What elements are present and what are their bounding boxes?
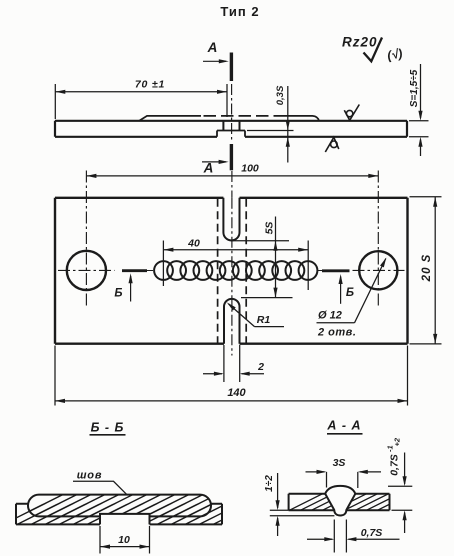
dimension 0,7S tolerance line — [404, 453, 406, 534]
svg-text:Б: Б — [346, 287, 354, 299]
right hole vertical centerline — [377, 171, 379, 308]
left hole vertical centerline — [85, 171, 87, 308]
hole callout shelf — [317, 322, 355, 324]
right hole — [359, 251, 397, 289]
dimension 1÷2 extension lines — [270, 510, 335, 516]
section mark A bottom: arrow — [202, 161, 226, 163]
svg-text:Rz20: Rz20 — [342, 35, 378, 50]
svg-text:Тип 2: Тип 2 — [220, 4, 259, 19]
svg-text:+2: +2 — [393, 437, 402, 446]
section mark A top: arrow — [203, 60, 226, 62]
side view weld bead top line dashed middle — [204, 115, 278, 117]
svg-text:-1: -1 — [386, 445, 395, 452]
left hole — [67, 251, 106, 290]
dimension 140 line — [55, 400, 408, 402]
svg-text:5S: 5S — [264, 222, 276, 235]
label шов leader — [73, 481, 127, 495]
centerline of section A between views — [231, 171, 233, 198]
dimension 70±1 line — [55, 91, 227, 93]
section mark Б left: arrow — [130, 276, 132, 302]
svg-text:20 S: 20 S — [421, 254, 433, 283]
plan view plate outline — [55, 198, 408, 344]
hole callout leader — [355, 259, 386, 323]
dimension 0,3S line — [287, 86, 289, 163]
dimension 20S line — [434, 197, 436, 344]
svg-text:140: 140 — [227, 387, 246, 399]
svg-text:2 отв.: 2 отв. — [317, 327, 356, 339]
centerline stub left of weld — [147, 270, 153, 272]
svg-text:Б: Б — [114, 288, 122, 300]
section mark A bottom: thick bar — [230, 144, 233, 170]
dimension 3S arrows — [306, 471, 382, 473]
dimension 1÷2 line — [277, 473, 279, 536]
svg-text:А: А — [203, 161, 214, 176]
А-А weld bead — [325, 486, 355, 516]
svg-text:А - А: А - А — [326, 419, 361, 433]
dimension 40 line — [163, 249, 308, 251]
notch cutout mask — [101, 514, 149, 524]
horizontal centerline right — [353, 269, 405, 271]
plan view centerline vertical — [231, 198, 233, 356]
svg-text:Ø 12: Ø 12 — [318, 310, 342, 322]
surface finish symbol top — [344, 105, 359, 121]
svg-text:шов: шов — [77, 470, 103, 482]
dimension 2 extension lines — [224, 345, 240, 382]
svg-text:(√): (√) — [386, 46, 403, 62]
svg-text:0,3S: 0,3S — [275, 85, 286, 105]
dimension 0,7S bottom extension lines — [334, 520, 346, 553]
radius R1 leader — [229, 304, 285, 327]
svg-text:0,7S: 0,7S — [389, 454, 401, 476]
centerline stub right of weld — [318, 270, 323, 272]
dimension 100 line — [86, 175, 378, 177]
svg-text:Б - Б: Б - Б — [91, 421, 125, 435]
dimension S line lower — [420, 140, 422, 157]
А-А plate outline — [289, 494, 390, 510]
svg-text:2: 2 — [257, 361, 264, 373]
section mark Б left: thick bar — [122, 269, 147, 272]
section mark Б right: thick bar — [322, 269, 350, 272]
dimension S line upper — [420, 64, 422, 118]
dimension 0,7S tolerance extension lines — [388, 486, 412, 510]
dimension 10 extension lines — [100, 526, 150, 554]
hidden line left of joint — [217, 199, 219, 344]
dimension 0,7S bottom arrows — [307, 538, 400, 540]
svg-text:R1: R1 — [257, 314, 271, 326]
svg-text:0,7S: 0,7S — [361, 527, 383, 539]
dimension 5S line — [275, 217, 277, 298]
side view weld bead top line right end — [277, 116, 319, 121]
dimension 140 extension lines — [55, 346, 408, 406]
side view bottom recess — [217, 131, 245, 137]
dimension 20S extension lines — [410, 197, 442, 344]
dimension 2 arrows — [203, 373, 264, 375]
plan view bottom slot — [224, 299, 240, 344]
side view slot walls — [223, 121, 239, 131]
dimension S=1,5÷5 extension lines — [409, 121, 429, 137]
section mark A top: thick bar — [230, 53, 233, 82]
surface finish symbol bottom — [325, 137, 339, 152]
hidden line right of joint — [245, 199, 247, 344]
Б-Б weld bead outline — [28, 495, 211, 517]
horizontal centerline left — [58, 269, 115, 271]
side view plate outline — [55, 121, 407, 137]
dimension 0,3S extension line — [247, 130, 294, 132]
svg-text:1÷2: 1÷2 — [264, 475, 275, 492]
dimension 3S extension lines — [327, 472, 358, 488]
svg-text:S=1,5÷5: S=1,5÷5 — [409, 69, 420, 107]
section mark Б right: arrow — [340, 277, 342, 304]
dimension 70±1 extension lines — [55, 84, 227, 119]
svg-text:40: 40 — [187, 238, 200, 250]
svg-text:10: 10 — [118, 534, 130, 546]
plan view top slot — [223, 198, 239, 241]
dimension 40 extension lines — [163, 241, 308, 291]
side view weld bead top line solid left — [139, 116, 201, 121]
Б-Б plate outline — [16, 504, 222, 525]
weld seam chain — [154, 261, 317, 280]
centerline of section A through side view — [231, 84, 233, 142]
dimension 10 line — [100, 546, 150, 548]
dimension 5S extension lines — [232, 241, 293, 298]
svg-text:3S: 3S — [333, 457, 346, 469]
svg-text:100: 100 — [241, 163, 259, 175]
svg-text:70 ±1: 70 ±1 — [135, 79, 165, 91]
roughness check mark — [364, 38, 383, 62]
svg-text:А: А — [207, 40, 218, 55]
